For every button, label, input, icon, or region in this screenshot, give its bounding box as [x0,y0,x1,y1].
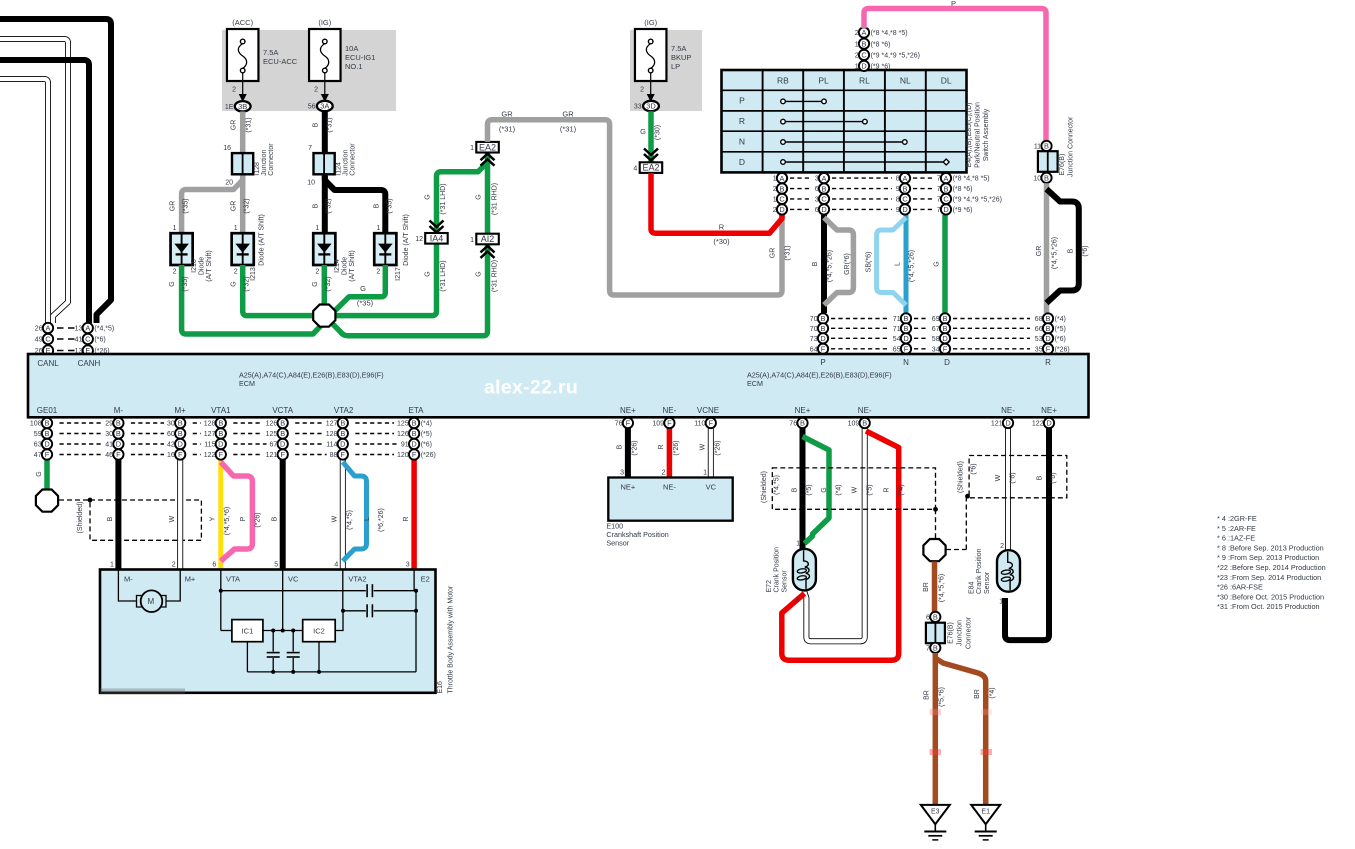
svg-text:7: 7 [937,176,941,183]
svg-text:Crank Position: Crank Position [976,548,983,594]
svg-text:(*9 *6): (*9 *6) [953,207,973,214]
svg-text:R: R [719,223,725,232]
svg-text:ECM: ECM [747,379,763,388]
svg-text:7: 7 [937,207,941,214]
svg-text:3D: 3D [646,102,656,111]
svg-text:F: F [178,450,183,459]
capacitor C inside 1 [272,631,274,672]
svg-text:2: 2 [662,470,666,477]
svg-text:(*31): (*31) [246,117,253,132]
diode I217 [374,214,410,281]
svg-text:41: 41 [75,337,83,344]
svg-text:IA4: IA4 [430,233,444,243]
svg-text:D: D [861,62,866,71]
wire GR(*6) bulge col2 [824,218,853,306]
wire B(*6) bulge right [1047,189,1079,303]
svg-text:VTA1: VTA1 [211,406,231,415]
svg-text:VTA2: VTA2 [348,575,366,584]
svg-text:N: N [739,137,745,147]
svg-text:F: F [280,450,285,459]
svg-text:126: 126 [266,421,278,428]
svg-text:B: B [800,419,805,428]
svg-text:W: W [852,486,859,493]
svg-text:(*31 LHD): (*31 LHD) [440,260,447,291]
svg-text:(*32): (*32) [244,276,251,291]
svg-text:64: 64 [810,346,818,353]
svg-text:*23 :From Sep. 2014 Production: *23 :From Sep. 2014 Production [1217,573,1321,582]
svg-text:33: 33 [634,104,642,111]
svg-text:2: 2 [773,186,777,193]
svg-text:2: 2 [855,53,859,60]
svg-text:127: 127 [204,431,216,438]
svg-text:9: 9 [896,207,900,214]
svg-text:PL: PL [818,76,829,86]
svg-text:53: 53 [1035,336,1043,343]
svg-text:(*9 *4,*9 *5,*26): (*9 *4,*9 *5,*26) [871,53,920,60]
throttle body assembly E16 [100,562,455,695]
svg-text:(*6): (*6) [971,463,978,474]
wire BR to ground E3 [933,653,939,805]
svg-text:B: B [904,324,909,333]
svg-text:F: F [626,419,631,428]
connector box EA2 pin 1 [470,142,499,166]
svg-text:B: B [340,429,345,438]
ground junction octagon [923,539,945,561]
svg-text:Connector: Connector [350,143,357,176]
svg-text:A: A [85,324,90,333]
svg-text:I213: I213 [250,267,257,281]
wire CANH black inner from left edge [0,60,89,323]
svg-text:1: 1 [999,599,1003,606]
svg-text:* 4 :2GR-FE: * 4 :2GR-FE [1217,514,1257,523]
svg-text:E3: E3 [931,808,940,815]
connector 3D [634,101,659,111]
svg-text:20: 20 [225,180,233,187]
ground rail [247,642,319,672]
park/neutral position switch assembly table [722,70,991,172]
svg-text:(*26): (*26) [632,440,639,455]
svg-text:(*26): (*26) [255,512,262,527]
svg-text:10A: 10A [345,44,358,53]
svg-text:12: 12 [415,236,423,243]
svg-text:13: 13 [75,326,83,333]
wire W from 109B loop to E72 pin2 [804,428,864,641]
wire CANL white inner from left edge [0,79,48,323]
svg-text:E2: E2 [421,575,430,584]
svg-text:W: W [995,474,1002,481]
svg-text:B: B [178,429,183,438]
svg-text:D: D [1005,419,1010,428]
svg-text:B: B [862,419,867,428]
connector rows 70B/71B etc [810,313,1070,354]
VTA internal line with capacitor to E2 [220,570,222,631]
svg-text:2: 2 [640,87,644,94]
svg-text:2: 2 [376,269,380,276]
svg-text:B: B [107,516,114,521]
svg-text:R: R [739,116,745,126]
svg-text:1: 1 [796,541,800,548]
junction connector I124 [307,143,356,187]
svg-text:16: 16 [223,145,231,152]
wire G junction to IA4 branch [324,244,436,316]
svg-text:M+: M+ [175,406,187,415]
wire SB(*6) bulge col3 [877,218,906,306]
svg-text:(ACC): (ACC) [232,18,253,27]
svg-text:D: D [44,440,49,449]
notes legend [1217,514,1326,611]
svg-text:1: 1 [773,197,777,204]
junction connector E76(B) top [1033,116,1074,183]
svg-text:VC: VC [706,483,717,492]
svg-text:G: G [476,194,483,199]
svg-text:8: 8 [896,197,900,204]
connector 3A [308,101,333,111]
fuse 7.5A ECU-ACC [227,18,298,102]
svg-text:(*4): (*4) [1055,316,1066,323]
wire R to throttle E2 [411,428,417,570]
svg-text:67: 67 [932,326,940,333]
svg-text:(*31): (*31) [785,245,792,260]
motor M [118,570,136,601]
svg-text:CANL: CANL [37,359,59,368]
svg-text:Switch Assembly: Switch Assembly [983,108,990,161]
svg-text:110: 110 [694,421,705,428]
svg-text:66: 66 [1035,326,1043,333]
svg-text:B: B [933,644,938,653]
svg-text:F: F [341,450,346,459]
svg-text:(*6): (*6) [1010,472,1017,483]
svg-text:(*32): (*32) [244,198,251,213]
svg-text:1: 1 [376,225,380,232]
svg-text:B: B [116,419,121,428]
wire R to E100 NE- [667,428,673,478]
svg-text:47: 47 [34,452,42,459]
svg-text:I216: I216 [191,259,198,273]
svg-text:P: P [951,0,956,8]
svg-text:AI2: AI2 [481,234,495,244]
svg-text:VC: VC [288,575,299,584]
svg-text:1E: 1E [225,104,234,111]
svg-text:(A/T Shift): (A/T Shift) [206,250,213,281]
svg-text:Park/Neutral Position: Park/Neutral Position [975,102,982,168]
svg-text:(*31 RHD): (*31 RHD) [492,260,499,292]
svg-text:76: 76 [789,421,797,428]
shield box E84 [969,456,1067,498]
svg-text:70: 70 [810,326,818,333]
svg-text:(*5): (*5) [1055,326,1066,333]
svg-text:*31 :From Oct. 2015 Production: *31 :From Oct. 2015 Production [1217,602,1320,611]
svg-text:GR: GR [770,248,777,259]
svg-text:Diode: Diode [341,257,348,275]
svg-text:B: B [340,419,345,428]
svg-text:(*4): (*4) [989,687,996,698]
svg-text:2: 2 [315,269,319,276]
svg-text:60: 60 [167,431,175,438]
svg-text:G: G [360,284,366,293]
svg-text:B: B [45,429,50,438]
connector box EA2 pin 4 [633,149,662,173]
svg-text:NE+: NE+ [795,406,811,415]
svg-text:D: D [739,157,745,167]
svg-text:F: F [904,345,909,354]
svg-text:VTA2: VTA2 [334,406,354,415]
svg-text:D: D [280,440,285,449]
svg-text:* 9 :From Sep. 2013 Production: * 9 :From Sep. 2013 Production [1217,553,1319,562]
wire B from 76B to E72 [800,428,806,549]
svg-text:1: 1 [773,176,777,183]
svg-text:NE-: NE- [858,406,872,415]
svg-text:59: 59 [34,431,42,438]
svg-text:(*30): (*30) [713,237,730,246]
svg-text:E76(B): E76(B) [1059,154,1066,176]
svg-text:R: R [1045,358,1051,367]
svg-text:41: 41 [105,442,113,449]
svg-text:A: A [780,174,785,183]
svg-text:108: 108 [30,421,42,428]
wire L(*6,*26) bulge [343,462,367,561]
svg-text:6: 6 [815,186,819,193]
svg-text:F: F [709,419,714,428]
svg-text:NE-: NE- [663,483,676,492]
wire W to E100 VC [708,428,714,478]
svg-text:B: B [218,419,223,428]
svg-text:42: 42 [167,442,175,449]
wire W to throttle VTA2 [340,428,346,570]
svg-text:B: B [821,324,826,333]
svg-text:P: P [739,96,745,106]
svg-text:L: L [895,262,902,266]
svg-text:F: F [667,419,672,428]
svg-text:G: G [169,281,176,286]
watermark traces [855,709,992,780]
wire CANH black outer from left edge [0,19,111,323]
svg-text:E72: E72 [766,580,773,593]
svg-text:2: 2 [234,269,238,276]
svg-text:M+: M+ [185,575,196,584]
svg-text:B: B [617,444,624,449]
svg-text:D: D [1045,334,1050,343]
svg-text:3: 3 [406,562,410,569]
svg-text:2: 2 [172,562,176,569]
svg-text:B: B [943,314,948,323]
wire G from I217 to junction [330,265,385,316]
svg-text:(Shielded): (Shielded) [77,502,84,534]
svg-text:M-: M- [114,406,124,415]
svg-text:Junction: Junction [261,150,268,176]
svg-text:8: 8 [896,176,900,183]
svg-text:M-: M- [124,575,133,584]
svg-text:(*5,*6): (*5,*6) [939,687,946,707]
sensor E100 [606,470,732,548]
svg-text:A: A [46,324,51,333]
svg-text:6: 6 [815,207,819,214]
svg-text:63: 63 [34,442,42,449]
connector rows below ECM left [30,418,436,460]
svg-text:B: B [313,203,320,208]
svg-text:7: 7 [937,197,941,204]
svg-text:* 5 :2AR-FE: * 5 :2AR-FE [1217,524,1256,533]
svg-text:G: G [934,261,941,266]
svg-text:B: B [792,487,799,492]
wire BR branch to ground E1 [935,658,985,805]
svg-text:C: C [85,335,91,344]
svg-text:G: G [231,281,238,286]
svg-text:(*4,*5,*26): (*4,*5,*26) [909,250,916,282]
svg-text:Diode: Diode [199,257,206,275]
svg-text:ETA: ETA [409,406,425,415]
svg-text:(*8 *4,*8 *5): (*8 *4,*8 *5) [871,30,908,37]
svg-text:7.5A: 7.5A [263,48,278,57]
svg-text:B: B [313,122,320,127]
svg-text:125: 125 [397,421,409,428]
svg-text:B: B [1044,142,1049,151]
svg-text:Junction Connector: Junction Connector [1067,116,1074,177]
svg-text:(*6): (*6) [94,337,105,344]
svg-text:46: 46 [105,452,113,459]
svg-text:(*31): (*31) [499,125,516,134]
svg-text:B: B [45,419,50,428]
svg-text:BR: BR [924,690,931,700]
svg-text:*30 :Before Oct. 2015 Producti: *30 :Before Oct. 2015 Production [1217,592,1324,601]
svg-text:58: 58 [932,336,940,343]
svg-text:1: 1 [110,562,114,569]
svg-text:GR: GR [501,110,513,119]
wire Y to throttle VTA [218,428,223,570]
svg-text:B: B [1046,324,1051,333]
svg-text:G: G [36,471,43,476]
svg-text:BR: BR [923,582,930,592]
svg-text:2: 2 [795,597,799,604]
svg-text:D: D [178,440,183,449]
svg-text:B: B [412,419,417,428]
svg-text:1: 1 [703,470,707,477]
svg-text:NE+: NE+ [620,483,635,492]
svg-text:RL: RL [859,76,870,86]
svg-text:(*4): (*4) [421,421,432,428]
connectors 76B 109B [789,418,870,428]
svg-text:G: G [425,194,432,199]
svg-text:67: 67 [270,442,278,449]
svg-text:NE+: NE+ [1041,406,1057,415]
svg-text:(*35): (*35) [183,198,190,213]
svg-text:B: B [821,314,826,323]
svg-text:7: 7 [937,186,941,193]
svg-text:F: F [219,450,224,459]
svg-text:91: 91 [401,442,409,449]
svg-text:GR(*6): GR(*6) [844,253,851,275]
wire GR from E76B 10B down [1044,183,1050,313]
svg-text:(*32): (*32) [325,276,332,291]
svg-text:(*4): (*4) [898,484,905,495]
svg-text:C: C [943,195,949,204]
svg-text:6: 6 [212,562,216,569]
svg-text:D: D [411,440,416,449]
svg-text:D: D [218,440,223,449]
svg-text:30: 30 [167,421,175,428]
svg-text:GR: GR [170,201,177,212]
svg-text:I217: I217 [395,267,402,281]
svg-text:1: 1 [173,225,177,232]
svg-text:(*4,*5): (*4,*5) [347,510,354,530]
svg-text:3: 3 [620,470,624,477]
svg-text:G: G [312,281,319,286]
svg-text:B: B [903,184,908,193]
svg-text:125: 125 [266,431,278,438]
svg-text:ECU-ACC: ECU-ACC [263,57,298,66]
svg-text:71: 71 [893,326,901,333]
svg-text:(*4,*5,*26): (*4,*5,*26) [827,250,834,282]
shield box E72 [772,468,935,509]
svg-text:F: F [116,450,121,459]
svg-text:B: B [943,324,948,333]
svg-text:7.5A: 7.5A [671,44,686,53]
svg-text:*26 :6AR-FSE: *26 :6AR-FSE [1217,583,1263,592]
svg-text:88: 88 [330,452,338,459]
svg-text:W: W [332,515,339,522]
wire B to throttle VC [280,428,286,570]
svg-text:71: 71 [893,316,901,323]
svg-text:35: 35 [1035,346,1043,353]
VC line + junction dots [263,630,303,632]
svg-text:7: 7 [926,645,930,652]
wire G IA4 up to EA2 [437,162,488,233]
svg-text:EA2: EA2 [642,163,659,173]
svg-text:VCTA: VCTA [272,406,293,415]
svg-text:R: R [884,487,891,492]
svg-text:GR: GR [1036,246,1043,257]
wire GR from I128 to diode I216 [182,176,243,234]
wire CANL white outer from left edge [0,39,68,323]
connector box AI2 pin 1 [470,234,499,258]
diode I216 [171,225,214,282]
svg-text:C: C [861,51,867,60]
wire GR from EA2 to park/neutral connector [488,120,783,295]
svg-text:7: 7 [308,145,312,152]
svg-text:(*35): (*35) [387,198,394,213]
svg-text:(IG): (IG) [644,18,657,27]
svg-text:B: B [374,203,381,208]
svg-text:W: W [700,443,707,450]
svg-text:(*30): (*30) [655,125,662,140]
svg-text:EA2: EA2 [479,142,496,152]
svg-text:3B: 3B [238,102,247,111]
svg-text:(*4,*5,*26): (*4,*5,*26) [1052,237,1059,269]
svg-text:E76(B): E76(B) [948,622,955,644]
svg-text:B: B [116,429,121,438]
svg-text:109: 109 [848,421,860,428]
svg-text:1: 1 [234,225,238,232]
wire W from 121D to E84 [1005,428,1011,550]
svg-text:(IG): (IG) [318,18,331,27]
wire P(*26) bulge [221,462,253,561]
svg-text:(*32): (*32) [326,198,333,213]
svg-text:L: L [364,517,371,521]
svg-text:F: F [1046,345,1051,354]
svg-text:(*5): (*5) [806,484,813,495]
svg-text:B: B [780,184,785,193]
svg-text:126: 126 [397,431,409,438]
svg-text:115: 115 [204,442,215,449]
svg-text:D: D [820,334,825,343]
svg-text:D: D [116,440,121,449]
svg-text:RB: RB [777,76,789,86]
svg-text:Diode (A/T Shift): Diode (A/T Shift) [403,214,410,266]
svg-text:E84: E84 [969,581,976,594]
connector stack 2A/1B/2C/1D [855,27,920,71]
shield ground node octagon [36,490,58,512]
wire BR octagon to E76B [932,562,938,612]
svg-text:70: 70 [810,316,818,323]
